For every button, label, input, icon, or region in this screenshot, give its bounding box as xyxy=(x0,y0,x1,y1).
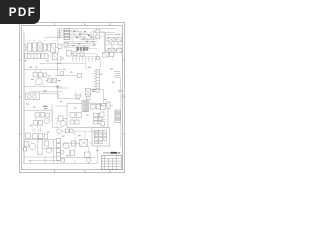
frame zone tick top xyxy=(55,23,110,26)
PDF badge xyxy=(0,0,40,24)
capacitor C10 xyxy=(97,57,102,70)
transistor Q8 xyxy=(86,158,90,162)
pad matrix PM1 xyxy=(93,113,102,124)
wire L2 feed xyxy=(99,104,113,106)
resistor R5 xyxy=(86,96,90,99)
resistor R7 xyxy=(35,113,39,117)
transistor Q6 xyxy=(57,129,100,134)
resistor R1 xyxy=(66,50,71,56)
connector CN2 xyxy=(96,69,99,92)
IC U3 xyxy=(117,38,122,42)
border frame outer xyxy=(20,22,125,172)
transistor Q7 xyxy=(63,143,69,149)
wire into box xyxy=(55,106,67,118)
wire low row xyxy=(61,157,95,159)
resistor R8 xyxy=(40,113,44,117)
transistor Q2 xyxy=(61,72,64,76)
title block table xyxy=(102,155,122,169)
wire inter-row xyxy=(106,42,123,49)
title text xyxy=(103,152,120,154)
resistor R31 xyxy=(96,35,100,39)
wire xtal row xyxy=(58,98,81,101)
resistor R22 xyxy=(72,141,76,146)
wire taps xyxy=(75,131,95,138)
resistor R12 xyxy=(76,112,81,117)
ground bus xyxy=(23,146,98,163)
resistor R4 xyxy=(78,73,82,77)
capacitor C17 xyxy=(75,120,79,124)
wire Q2 row xyxy=(55,64,78,88)
wire row2 xyxy=(40,56,57,64)
capacitor C4 xyxy=(44,73,47,77)
capacitor C12 xyxy=(39,120,43,125)
wire vertical drop V1 xyxy=(57,29,59,44)
input connector J1 xyxy=(24,45,27,51)
wire W1 rail xyxy=(120,95,122,147)
ground GND1 xyxy=(117,90,123,93)
wire Q8 drop xyxy=(88,146,90,152)
capacitor bank C7 xyxy=(78,57,80,63)
transistor Q4 xyxy=(29,143,35,149)
wire U4 drop xyxy=(112,42,119,49)
varistor RV1 xyxy=(52,53,57,59)
wire R30 stubs xyxy=(94,29,105,40)
capacitor bank C9 xyxy=(85,57,87,63)
wire mid row xyxy=(62,142,92,144)
resistor R20 xyxy=(70,129,73,133)
resistor R11 xyxy=(70,112,75,117)
pad matrix PM2 xyxy=(94,130,107,143)
resistor R13 xyxy=(58,116,63,121)
diode D3 xyxy=(103,52,109,57)
capacitor C18 polarized xyxy=(32,127,35,132)
bus component marks xyxy=(72,31,95,47)
wire mid link xyxy=(40,63,62,65)
wire left cluster rails xyxy=(23,140,60,164)
transistor Q5 xyxy=(46,147,52,153)
wire CN2 stubs xyxy=(93,71,96,89)
resistor R3 xyxy=(80,52,84,56)
capacitor C19 polarized xyxy=(38,128,40,132)
IC U1 bus pair xyxy=(104,33,105,57)
frame zone tick bottom xyxy=(55,170,110,173)
wire label out xyxy=(70,49,99,57)
wire top rail xyxy=(58,28,116,30)
regulator U10 xyxy=(101,103,106,109)
capacitor C26 xyxy=(56,84,60,99)
wire ladder stubs xyxy=(60,30,64,37)
capacitor C15 polarized xyxy=(78,93,82,99)
resistor array RN2 xyxy=(41,53,48,58)
border frame inner xyxy=(22,26,123,170)
wire opto out xyxy=(40,90,104,104)
designator labels scatter xyxy=(24,60,115,156)
capacitor bank C6 xyxy=(75,57,77,63)
shield box U7 xyxy=(67,104,108,128)
resistor R17 xyxy=(38,134,43,139)
title table header text xyxy=(105,156,120,166)
capacitor C14 polarized xyxy=(74,92,78,99)
resistor R29 xyxy=(46,113,50,117)
wire rail2 xyxy=(23,69,62,71)
shield box U9 xyxy=(92,128,110,146)
sheet background xyxy=(0,0,149,198)
header P1 pins xyxy=(117,33,123,36)
winding W1 xyxy=(115,110,121,122)
wire row3 xyxy=(45,79,60,81)
capacitor C2 xyxy=(43,44,46,51)
resistor stack R21 xyxy=(56,138,60,152)
frame zone tick right xyxy=(123,60,125,134)
crystal X2 xyxy=(80,139,88,146)
IC U4 xyxy=(108,48,115,53)
capacitor C20 xyxy=(44,134,47,138)
resistor R19 xyxy=(65,129,69,133)
crystal X1 xyxy=(85,89,91,95)
wire T2 feed xyxy=(112,57,114,60)
resistor R2 xyxy=(73,51,77,55)
resistor R24 xyxy=(85,152,90,157)
connector ladder CN1 xyxy=(64,29,69,40)
capacitor C25 xyxy=(101,121,105,125)
border note xyxy=(120,95,123,96)
IC U2 xyxy=(108,37,115,42)
resistor stack R23 xyxy=(56,152,60,160)
capacitor bank C8 xyxy=(82,57,84,63)
motor M1 xyxy=(44,118,49,123)
capacitor bank C24 xyxy=(94,57,96,63)
relay K1 xyxy=(33,72,37,77)
resistor R30 xyxy=(96,29,100,33)
resistor R26 xyxy=(58,44,62,48)
resistor R18 xyxy=(24,141,28,146)
label block LBL1 xyxy=(76,47,88,51)
capacitor bank C22 xyxy=(88,57,90,63)
filter L1 xyxy=(27,43,31,51)
transistor Q3 xyxy=(60,121,66,127)
diode D2 xyxy=(61,57,65,61)
label X1 xyxy=(92,89,95,92)
resistor R9 xyxy=(91,104,96,109)
transistor Q9 xyxy=(60,150,64,154)
IC U5 xyxy=(117,49,122,53)
capacitor bank C23 xyxy=(91,57,93,63)
left vertical supply bus xyxy=(23,30,24,163)
wire mid rail xyxy=(58,63,87,70)
resistor array RN1 xyxy=(25,53,41,58)
capacitor C27 xyxy=(24,148,27,151)
resistor R6 xyxy=(110,53,114,57)
wire top feed xyxy=(44,36,63,38)
frame zone tick left xyxy=(19,60,21,134)
data bus fan xyxy=(69,30,100,44)
contact S2 xyxy=(53,78,57,82)
capacitor bank C5 xyxy=(72,57,74,63)
resistor R32 xyxy=(64,42,68,46)
wire C25 xyxy=(100,120,106,128)
bridge rectifier D1 xyxy=(38,43,43,52)
contact S1 xyxy=(48,78,52,82)
inductor L2 xyxy=(107,102,110,108)
relay K2 xyxy=(38,72,42,77)
capacitor C3 xyxy=(47,44,50,51)
capacitor C11 xyxy=(34,120,38,125)
wire Q1 leads xyxy=(34,70,44,87)
resistor R15 xyxy=(26,133,31,139)
capacitor C16 xyxy=(70,120,74,124)
transformer T1 xyxy=(51,43,56,52)
opto U6 xyxy=(25,93,40,100)
resistor R27 xyxy=(61,159,65,162)
transformer T2 xyxy=(114,72,120,78)
bus lower lines xyxy=(64,42,96,48)
label row PSU xyxy=(28,39,54,41)
wires U2 U3 links xyxy=(106,39,123,52)
label cluster xyxy=(43,106,47,110)
resistor R28 xyxy=(70,150,74,155)
wire left tap xyxy=(23,104,52,121)
wire rail4 xyxy=(30,91,62,93)
resistor R16 xyxy=(33,134,38,139)
wire T2 drop xyxy=(119,77,121,90)
filter C1 xyxy=(33,43,37,51)
resistor R10 xyxy=(96,104,100,109)
wire R28 drop xyxy=(70,138,75,158)
transistor Q1 xyxy=(36,78,43,85)
wire U1 top xyxy=(98,33,120,35)
IC U11 xyxy=(38,139,42,155)
capacitor C21 xyxy=(45,141,49,146)
resistor R14 xyxy=(100,112,104,117)
wire cluster drops xyxy=(36,111,62,130)
pin pads CN1 xyxy=(59,30,60,38)
IC U8 pins xyxy=(82,101,89,112)
wire AC row xyxy=(26,48,58,54)
wire rail3 xyxy=(23,86,62,88)
